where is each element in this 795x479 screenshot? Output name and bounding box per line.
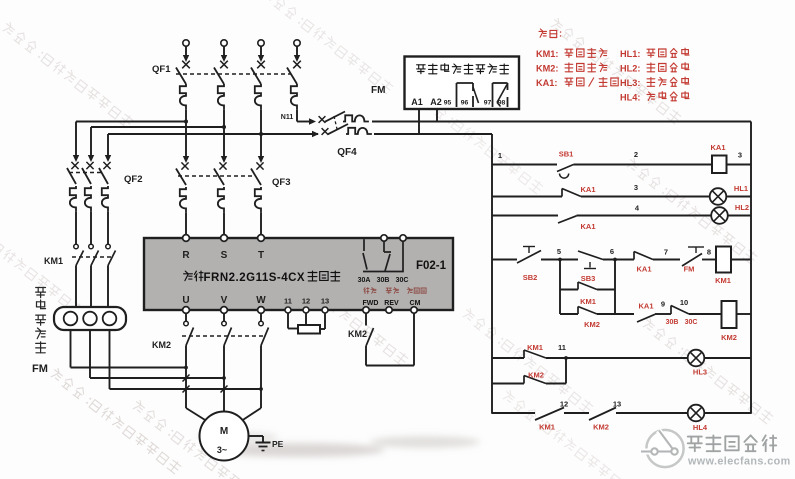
contact KM1 NC rung7 <box>535 408 564 421</box>
svg-text:30B: 30B <box>666 319 679 326</box>
svg-text:KA1: KA1 <box>636 265 651 274</box>
resistor speed pot <box>298 325 320 334</box>
wire rung4 a <box>541 259 578 261</box>
svg-text:12: 12 <box>302 297 310 306</box>
contactor coil KM1 <box>716 247 731 273</box>
contactor KM2 pole 1 <box>184 321 189 326</box>
svg-text:30B: 30B <box>377 277 390 284</box>
svg-text:97: 97 <box>484 100 492 107</box>
terminal W <box>258 307 265 314</box>
svg-text:3~: 3~ <box>217 445 227 455</box>
svg-text:REV: REV <box>384 300 399 307</box>
breaker QF4 pole 1 <box>309 118 316 124</box>
contact KM2 parallel <box>492 383 524 385</box>
svg-text:KM2: KM2 <box>152 340 171 350</box>
svg-text:F02-1: F02-1 <box>416 260 447 272</box>
terminal CM <box>411 307 417 313</box>
wire rung1 right <box>727 164 752 166</box>
wire A2 <box>436 109 438 122</box>
wire bypass phase3 <box>109 330 111 389</box>
wire inverter out 1 <box>185 313 187 321</box>
terminal S <box>221 235 228 242</box>
wire branch vertical B <box>614 260 616 315</box>
wire rung7 left <box>492 412 535 414</box>
svg-text:KA1: KA1 <box>710 143 725 152</box>
wire rung5 b <box>689 313 722 315</box>
wire tap L2 to QF2 <box>91 126 224 128</box>
terminal T <box>258 235 265 242</box>
KM1 linkage <box>72 256 112 258</box>
QF3 linkage <box>178 175 256 177</box>
node tap L3 <box>259 132 263 136</box>
svg-text:12: 12 <box>560 400 568 409</box>
contact KM1 NO rung6 <box>523 350 525 358</box>
wire QF2 pole 3 to KM1 <box>107 212 109 244</box>
QF3 pole 3 release <box>255 187 261 213</box>
svg-text:FWD: FWD <box>363 300 379 307</box>
wire rung3 right <box>728 215 751 217</box>
wire inverter out 2 <box>223 313 225 321</box>
QF1 pole 3 contact <box>257 61 265 69</box>
svg-text:HL4:: HL4: <box>620 93 640 103</box>
svg-text:KA1: KA1 <box>580 185 595 194</box>
motor M <box>200 412 249 461</box>
svg-text:KA1: KA1 <box>580 222 595 231</box>
svg-text:KM1: KM1 <box>715 276 731 285</box>
QF2 pole 2 release <box>85 186 91 212</box>
contact 30B-30C <box>670 306 672 315</box>
wire to QF3 pole 3 <box>258 156 264 163</box>
svg-text:CM: CM <box>410 300 421 307</box>
wire HL3 branch vertical <box>565 358 567 384</box>
wire KM1 pole 3 to FM <box>107 266 109 309</box>
contact KM2 NC rung7 <box>589 408 616 421</box>
wire KM1 pole 1 to FM <box>75 266 77 309</box>
protector title <box>417 65 426 74</box>
wire motor lead 3 <box>260 346 262 409</box>
wire rung2 right <box>726 196 751 198</box>
svg-text:10: 10 <box>680 298 688 307</box>
inverter U1 body <box>144 238 453 310</box>
breaker QF4 pole 2 <box>312 131 319 137</box>
wire rung7 b <box>616 412 688 414</box>
terminal R <box>183 235 190 242</box>
svg-text:95: 95 <box>444 100 452 107</box>
svg-text:KM1: KM1 <box>44 256 63 266</box>
wire bypass phase2 <box>89 330 91 378</box>
wire QF3 pole 1 to inverter <box>185 213 187 235</box>
wire rung4 right <box>731 259 751 261</box>
QF1 pole 4 release <box>291 84 297 110</box>
wire FWD down <box>365 313 367 325</box>
contactor coil KM2 <box>722 301 737 328</box>
svg-text:KA1: KA1 <box>638 302 653 311</box>
svg-text:A1: A1 <box>411 97 423 107</box>
svg-text:HL2: HL2 <box>735 203 749 212</box>
svg-text:KM2: KM2 <box>348 329 367 339</box>
FM ring hole 3 <box>103 312 117 326</box>
contactor KM2 pole 3 <box>259 321 264 326</box>
svg-text:HL3:: HL3: <box>620 78 640 88</box>
wire rung6 right <box>704 357 751 359</box>
lamp HL1 <box>710 188 727 205</box>
watermark 2 <box>262 0 394 94</box>
wire rung4 left <box>492 259 517 261</box>
watermark 10 <box>412 87 544 194</box>
label zhengzhuan fanzhuan gonggong <box>364 288 369 294</box>
wire supply 1 drop <box>185 46 187 56</box>
svg-text:30C: 30C <box>685 319 698 326</box>
terminal REV <box>386 307 392 313</box>
svg-text:S: S <box>221 250 228 261</box>
svg-text:3: 3 <box>634 183 638 192</box>
contactor KM2 pole 2 <box>222 321 227 326</box>
svg-text:HL1: HL1 <box>734 184 748 193</box>
svg-text:M: M <box>220 426 228 437</box>
svg-text:HL2:: HL2: <box>620 64 640 74</box>
protector relay body <box>405 57 520 110</box>
svg-text:HL3: HL3 <box>693 368 707 377</box>
watermark 3 <box>550 17 682 124</box>
svg-text:8: 8 <box>707 248 711 257</box>
wire L3 vertical <box>260 110 262 157</box>
wire inverter out 3 <box>260 313 262 321</box>
svg-text:FM: FM <box>32 363 48 375</box>
svg-text:FM: FM <box>684 265 695 274</box>
svg-text:N11: N11 <box>281 114 294 121</box>
QF4 pole 2 release <box>346 128 372 134</box>
QF4 linkage <box>334 116 337 129</box>
QF4 pole 1 release <box>343 115 369 121</box>
QF2 pole 1 release <box>70 186 76 212</box>
QF1 pole 4 contact <box>293 61 301 69</box>
logo trace icon <box>641 431 672 452</box>
wire L3 to QF4 <box>261 133 318 135</box>
wire N vertical to bend <box>296 110 298 122</box>
wire right rail <box>750 122 752 414</box>
wire rung3 left <box>492 215 558 217</box>
lamp HL2 <box>711 207 728 224</box>
terminal 13 <box>322 307 328 313</box>
contact KA1 NC rung3 <box>558 216 577 223</box>
inverter type label <box>184 271 193 281</box>
QF3 pole 1 release <box>180 187 186 213</box>
wire supply 2 drop <box>223 46 225 56</box>
svg-text:KM2:: KM2: <box>536 64 558 74</box>
QF2 pole 3 release <box>102 186 108 212</box>
supply terminal 2 <box>221 40 227 46</box>
wire rung2 mid <box>581 196 710 198</box>
contact KA1 NO rung2 <box>561 189 563 197</box>
fault relay 30A <box>363 239 365 251</box>
watermark 7 <box>626 157 758 264</box>
contact KM2 aux <box>366 328 374 346</box>
svg-text:SB2: SB2 <box>523 273 538 282</box>
wire A1 <box>418 109 420 134</box>
wire KM1 pole 2 to FM <box>90 266 92 309</box>
svg-text:W: W <box>256 295 266 306</box>
svg-text:KM1: KM1 <box>539 423 555 432</box>
svg-text:11: 11 <box>558 343 566 352</box>
legend title shuoming <box>539 29 547 37</box>
terminal U <box>183 307 190 314</box>
fault relay 30C <box>400 235 406 241</box>
wire QF2 pole 1 to KM1 <box>75 212 77 244</box>
svg-text:6: 6 <box>610 247 614 256</box>
QF2 linkage <box>69 172 104 174</box>
wire to QF3 pole 1 <box>183 156 189 163</box>
svg-text:KM2: KM2 <box>721 333 737 342</box>
wire QF3 pole 3 to inverter <box>260 213 262 235</box>
svg-text:T: T <box>258 250 264 261</box>
watermark 12 <box>502 389 634 479</box>
svg-text:9: 9 <box>661 300 665 309</box>
wire rung3 mid <box>577 215 712 217</box>
QF1 pole 1 release <box>180 84 186 110</box>
wire rung4 c <box>653 259 680 261</box>
svg-text:R: R <box>182 250 190 261</box>
QF1 linkage <box>176 73 291 75</box>
node tap L2 <box>222 125 226 129</box>
svg-text:PE: PE <box>272 439 284 449</box>
svg-text:QF2: QF2 <box>124 174 142 185</box>
svg-text:HL1:: HL1: <box>620 49 640 59</box>
node tap L1 <box>184 120 188 124</box>
wire motor lead 1 <box>185 346 187 409</box>
crossover tick 1 <box>183 375 190 382</box>
protector contact 95-96 <box>456 83 458 107</box>
supply terminal 1 <box>183 40 189 46</box>
wire rung6 left <box>492 357 524 359</box>
watermark 5 <box>277 259 409 366</box>
motor protector FM ring <box>54 307 126 330</box>
svg-text:13: 13 <box>321 297 329 306</box>
svg-text:SB3: SB3 <box>581 274 596 283</box>
watermark 8 <box>642 317 774 424</box>
node N11 bend <box>297 121 311 123</box>
svg-text:KM1:: KM1: <box>536 49 558 59</box>
wire terminal 13 <box>324 313 326 329</box>
contact KM2 holding <box>560 313 578 315</box>
svg-text:KM2: KM2 <box>593 423 609 432</box>
svg-text:U: U <box>182 295 189 306</box>
wire control neutral line <box>374 133 492 135</box>
QF3 pole 1 contact <box>181 162 188 169</box>
terminal 11 <box>285 307 291 313</box>
supply terminal 4 <box>294 40 300 46</box>
wire rung4 d <box>702 259 716 261</box>
wire motor PE <box>249 435 264 437</box>
logo circle <box>646 430 683 467</box>
svg-text:30C: 30C <box>396 277 409 284</box>
terminal FWD <box>363 307 369 313</box>
wire L1 vertical <box>185 110 187 157</box>
protector contact 97-98 <box>492 83 494 107</box>
svg-text:QF4: QF4 <box>337 147 357 158</box>
wire rung7 a <box>564 412 589 414</box>
supply terminal 3 <box>258 40 264 46</box>
svg-text:KM2: KM2 <box>528 371 544 380</box>
bottom smudge <box>198 432 480 457</box>
terminal 12 <box>303 307 309 313</box>
QF2 pole 3 contact <box>103 162 110 169</box>
logo wordmark <box>688 437 702 452</box>
svg-text:11: 11 <box>284 297 292 306</box>
svg-text:2: 2 <box>634 150 638 159</box>
crossover tick 2 <box>183 386 190 393</box>
FM ring hole 1 <box>64 312 78 326</box>
wire branch vertical A <box>559 260 561 315</box>
svg-text:A2: A2 <box>430 97 442 107</box>
fault relay common bar <box>363 271 404 273</box>
svg-text:KM1: KM1 <box>527 343 543 352</box>
wire L2 vertical <box>223 110 225 157</box>
relay coil KA1 <box>712 156 727 174</box>
svg-text:FM: FM <box>371 85 385 96</box>
svg-text:KM2: KM2 <box>584 320 600 329</box>
wire rung4 b <box>603 259 634 261</box>
svg-text:FRN2.2G11S-4CX: FRN2.2G11S-4CX <box>204 272 306 284</box>
svg-text:V: V <box>221 295 228 306</box>
wire rung1 mid <box>574 164 713 166</box>
svg-text:96: 96 <box>461 100 469 107</box>
contactor KM1 pole 1 <box>74 244 79 249</box>
ground PE <box>256 442 271 444</box>
contactor KM1 pole 3 <box>106 244 111 249</box>
contactor KM1 pole 2 <box>89 244 94 249</box>
watermark 9 <box>50 367 182 474</box>
switch SB2 <box>517 251 541 264</box>
wire rung5 a <box>655 313 671 315</box>
QF1 pole 1 contact <box>182 61 190 69</box>
watermark 6 <box>462 307 594 414</box>
QF3 pole 2 release <box>218 187 224 213</box>
fault relay 30B <box>381 235 387 241</box>
wire rung7 right <box>704 412 751 414</box>
wire QF2 pole 2 to KM1 <box>90 212 92 244</box>
FM ring hole 2 <box>83 312 97 326</box>
svg-text:KM1: KM1 <box>580 297 596 306</box>
wire tap L1 to QF2 <box>76 121 186 123</box>
svg-text:SB1: SB1 <box>559 150 574 159</box>
contact KA1 NC rung5 <box>637 314 655 322</box>
svg-text:30A: 30A <box>358 277 371 284</box>
wire rung1 left <box>492 164 557 166</box>
wire rung5 right <box>737 313 752 315</box>
wire terminal 12 <box>305 313 307 325</box>
wire supply 4 drop <box>296 46 298 56</box>
svg-text:13: 13 <box>613 400 621 409</box>
wire QF3 pole 2 to inverter <box>223 213 225 235</box>
svg-text:QF1: QF1 <box>152 64 171 75</box>
QF1 pole 2 release <box>218 84 224 110</box>
QF3 pole 2 contact <box>219 162 226 169</box>
QF1 pole 3 release <box>255 84 261 110</box>
wire motor lead 2 <box>223 346 225 413</box>
wire bypass phase1 <box>70 330 72 368</box>
wire to QF3 pole 2 <box>221 156 227 163</box>
lamp HL4 <box>688 405 705 422</box>
svg-text:KA1:: KA1: <box>536 78 557 88</box>
wire terminal 11 <box>287 313 289 328</box>
svg-text:3: 3 <box>738 151 742 160</box>
contact KA1 NO rung4 <box>633 252 635 260</box>
QF2 pole 2 contact <box>86 162 93 169</box>
KM2 linkage <box>182 335 265 337</box>
QF3 pole 3 contact <box>256 162 263 169</box>
wire supply 3 drop <box>260 46 262 56</box>
lamp HL3 <box>688 350 705 367</box>
QF2 pole 1 contact <box>71 162 78 169</box>
watermark 4 <box>0 209 84 316</box>
svg-text:1: 1 <box>498 151 502 160</box>
terminal V <box>221 307 228 314</box>
svg-text:7: 7 <box>664 248 668 257</box>
wire rung2 left <box>492 196 562 198</box>
wire left rail <box>491 134 493 414</box>
wire tap L3 to QF2 <box>108 133 261 135</box>
crossover tick 3 <box>221 386 228 393</box>
svg-text:www.elecfans.com: www.elecfans.com <box>687 456 791 468</box>
wire control phase line <box>372 121 751 123</box>
svg-text:HL4: HL4 <box>693 423 708 432</box>
switch SB1 <box>557 165 574 172</box>
wire KM2 aux to CM <box>365 346 367 366</box>
svg-text:5: 5 <box>557 247 561 256</box>
switch SB3 <box>578 251 603 260</box>
QF1 pole 2 contact <box>220 61 228 69</box>
watermark 11 <box>132 399 264 479</box>
svg-text:QF3: QF3 <box>272 177 290 188</box>
contact KM1 holding <box>560 289 578 291</box>
watermark 1 <box>2 21 134 128</box>
contact FM NC <box>682 254 702 267</box>
label dianji baohuqi vertical <box>36 288 46 298</box>
wire rung6 mid <box>546 357 688 359</box>
